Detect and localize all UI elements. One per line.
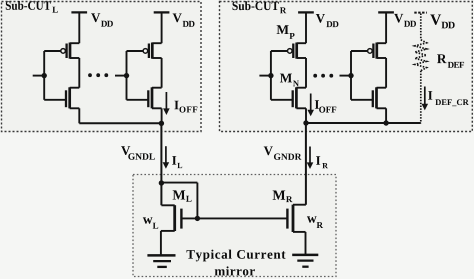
transistor PMOS of inverter 2 (Sub-CUT_L): [127, 43, 162, 59]
label V_DD inverter1 left: [91, 13, 100, 22]
transistor M_R: [287, 205, 306, 232]
transistor PMOS of inverter 2 (Sub-CUT_R): [351, 43, 386, 59]
wire PMOS-drain to NMOS-drain of inverter 2 (Sub-CUT_R): [385, 58, 387, 88]
ground symbol under M_L: [147, 255, 175, 267]
wire NMOS source to rail of inverter 1 (Sub-CUT_R): [305, 108, 307, 123]
label V_DD M_P column: [316, 14, 325, 23]
wire VDD lead of inverter 1 (Sub-CUT_L): [78, 12, 80, 43]
label R_DEF: [437, 54, 447, 63]
transistor M_L: [161, 205, 182, 231]
wire shared gate line M_L to M_R: [181, 217, 287, 219]
transistor PMOS of inverter 1 (Sub-CUT_L): [44, 43, 79, 59]
power VDD T-bar of R_DEF branch: [414, 12, 427, 14]
label I_L: [172, 156, 176, 165]
current arrow I_DEF_CR: [424, 87, 426, 106]
transistor NMOS of inverter 2 (Sub-CUT_L): [127, 87, 162, 108]
wire dotted VDD lead to R_DEF: [420, 14, 422, 40]
power VDD T-bar of inverter 2 (Sub-CUT_L): [154, 11, 170, 13]
node input junction dot of inverter 1 (Sub-CUT_R): [268, 73, 273, 78]
label I_R: [316, 156, 320, 165]
label I_OFF left: [174, 101, 178, 110]
wire VDD lead of inverter 2 (Sub-CUT_L): [161, 12, 163, 43]
ground symbol under M_R: [292, 255, 318, 267]
wire VDD lead of inverter 2 (Sub-CUT_R): [385, 12, 387, 43]
node rail junction dot at M_N source (Sub-CUT_R): [303, 120, 308, 125]
resistor R_DEF (dotted zigzag): [415, 40, 427, 71]
label M_L: [173, 190, 186, 199]
dashed box Typical Current mirror: [133, 175, 336, 277]
label w_R: [307, 216, 317, 222]
label M_R: [273, 191, 286, 200]
wire gate vertical of inverter 1 (Sub-CUT_L): [43, 51, 45, 100]
wire M_L source to ground: [160, 231, 162, 255]
node rail junction dot at inverter 2 (Sub-CUT_R): [383, 120, 388, 125]
label M_N: [280, 74, 292, 83]
label w_L: [143, 217, 153, 223]
label I_OFF right: [315, 100, 319, 109]
transistor M_P: [271, 43, 306, 59]
wire input stub of inverter 2 (Sub-CUT_R): [340, 75, 352, 77]
label V_DD R_DEF branch: [430, 14, 441, 24]
wire NMOS source to rail of inverter 1 (Sub-CUT_L): [78, 108, 80, 123]
ellipsis dots between stages (Sub-CUT_L): [88, 73, 108, 77]
current arrow I_R: [309, 147, 311, 164]
wire dotted R_DEF to rail: [420, 71, 422, 124]
wire input stub of inverter 2 (Sub-CUT_L): [115, 75, 127, 77]
label Sub-CUT_R: [233, 1, 279, 10]
dashed box Sub-CUT_R: [220, 2, 473, 132]
current arrow I_OFF (right): [310, 94, 312, 112]
label M_P: [277, 25, 289, 34]
wire bottom rail (Sub-CUT_R): [306, 122, 421, 124]
node gate junction dot: [195, 216, 200, 221]
node input junction dot of inverter 2 (Sub-CUT_R): [348, 73, 353, 78]
label Typical Current mirror: [187, 250, 286, 262]
wire NMOS source to rail of inverter 2 (Sub-CUT_R): [385, 108, 387, 123]
wire input stub of inverter 1 (Sub-CUT_R): [259, 75, 271, 77]
transistor NMOS of inverter 1 (Sub-CUT_L): [44, 87, 79, 108]
label Sub-CUT_L: [6, 1, 51, 10]
wire M_L drain-to-gate (diode connection): [161, 182, 197, 184]
wire PMOS-drain to NMOS-drain of inverter 2 (Sub-CUT_L): [161, 58, 163, 88]
label V_GNDR: [264, 146, 273, 155]
node input junction dot of inverter 2 (Sub-CUT_L): [124, 73, 129, 78]
wire VDD lead of inverter 1 (Sub-CUT_R): [305, 12, 307, 43]
wire NMOS source to rail of inverter 2 (Sub-CUT_L): [161, 108, 163, 123]
wire V_GNDR net: right rail down to M_R drain: [305, 123, 307, 205]
label V_DD inverter2 right: [394, 14, 403, 23]
wire input stub of inverter 1 (Sub-CUT_L): [33, 75, 45, 77]
transistor M_N: [271, 87, 306, 108]
wire gate vertical of inverter 1 (Sub-CUT_R): [270, 51, 272, 100]
node M_L drain junction dot: [159, 180, 164, 185]
wire PMOS-drain to NMOS-drain of inverter 1 (Sub-CUT_R): [305, 58, 307, 88]
wire M_R source to ground: [305, 232, 307, 255]
wire gate vertical of inverter 2 (Sub-CUT_L): [126, 51, 128, 100]
current arrow I_L: [165, 146, 167, 164]
wire gate vertical of inverter 2 (Sub-CUT_R): [350, 51, 352, 100]
power VDD T-bar of inverter 1 (Sub-CUT_L): [71, 11, 87, 13]
label V_DD inverter2 left: [173, 13, 182, 22]
power VDD T-bar of inverter 1 (Sub-CUT_R): [298, 11, 314, 13]
power VDD T-bar of inverter 2 (Sub-CUT_R): [378, 11, 394, 13]
wire PMOS-drain to NMOS-drain of inverter 1 (Sub-CUT_L): [78, 58, 80, 88]
node input junction dot of inverter 1 (Sub-CUT_L): [42, 73, 47, 78]
wire V_GNDL net: left rail down to M_L drain: [160, 123, 162, 205]
label I_DEF_CR: [428, 91, 432, 100]
ellipsis dots between stages (Sub-CUT_R): [313, 74, 333, 78]
node rail junction dot (Sub-CUT_L): [159, 121, 164, 126]
transistor NMOS of inverter 2 (Sub-CUT_R): [351, 87, 386, 108]
dashed box Sub-CUT_L: [2, 2, 202, 132]
wire bottom rail (Sub-CUT_L): [79, 122, 161, 124]
current arrow I_OFF (left): [165, 92, 167, 110]
label V_GNDL: [121, 146, 130, 155]
